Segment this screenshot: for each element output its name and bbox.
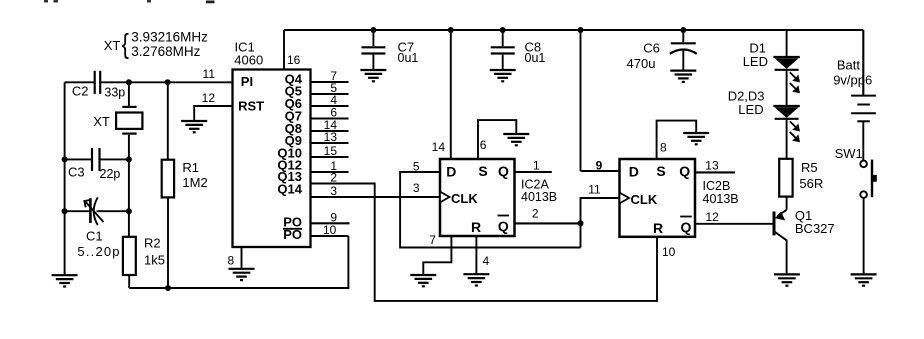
IC2A Q-bar overline [498,215,510,217]
C1 adjust arrow [85,201,104,222]
wire C1 left lead [65,210,90,212]
wire RST to ground [194,106,232,121]
svg-text:4060: 4060 [234,53,263,68]
svg-text:5: 5 [413,160,420,174]
svg-text:4013B: 4013B [521,190,557,204]
svg-text:1: 1 [533,159,540,173]
wire Q1 base wire from IC2B pin 12 [695,223,774,225]
capacitor C8 [491,47,515,53]
ground Q1 collector [774,274,800,285]
wire Q-bar node down to feedback [580,223,582,247]
svg-text:0u1: 0u1 [525,51,546,65]
LED D1 anode bar [773,56,799,58]
LED D1 light arrow 2 [790,83,798,91]
ground IC2A pin7 [410,275,436,286]
switch SW1 actuator [871,160,873,198]
junction Q-bar node [578,220,584,226]
wire battery to SW1 [862,121,864,160]
svg-text:C2: C2 [72,84,89,99]
svg-text:1k5: 1k5 [144,253,165,268]
wire bottom feedback rail to PO-bar [129,236,348,288]
capacitor C7 [361,47,385,53]
wire battery positive stem [862,30,864,96]
svg-text:8: 8 [228,254,235,268]
junction IC2A pin14/rail [448,27,454,33]
wire C1 right lead [97,210,129,212]
LED D1 light arrow 1 [790,72,798,80]
svg-text:13: 13 [705,159,719,173]
cropped text remnant 1 [44,0,48,3]
LED D2,D3 light arrow 2 [790,132,798,140]
op IC1 4060 box [233,70,311,248]
ground IC1 pin8 [229,269,255,280]
wire VDD to IC2B D [580,30,582,171]
transistor Q1 base bar [773,212,776,236]
svg-text:1M2: 1M2 [182,175,207,190]
svg-text:BC327: BC327 [795,221,835,236]
svg-text:33p: 33p [104,86,125,100]
svg-text:D: D [629,164,639,180]
ground IC2B pin8 [683,133,709,144]
svg-text:R1: R1 [182,160,199,175]
wire wire D2 cathode to R5 [786,120,788,159]
svg-text:Q14: Q14 [277,182,302,197]
wire IC1 output stub pin 4 [311,105,349,107]
svg-text:Q: Q [679,163,690,179]
wire SW1 to ground [863,198,865,275]
wire IC2B Q pin13 stub [695,171,735,173]
wire IC1 pin8 to ground [241,247,243,269]
svg-text:R2: R2 [144,236,161,251]
crystal XT top plate [122,106,136,108]
junction C1 left node [62,208,68,214]
svg-text:R: R [471,219,481,235]
junction IC2B D/rail [578,27,584,33]
wire IC1 PO pin9 stub [311,222,350,224]
wire IC2A D feedback [400,172,580,248]
ground battery [851,274,877,285]
svg-text:22p: 22p [100,167,121,181]
wire wire R5 to Q1 emitter [786,197,788,210]
capacitor C6 (electrolytic) [670,43,697,54]
wire IC1 PO-bar pin10 wire [311,235,349,237]
resistor R5 [779,159,792,197]
junction C6/rail [680,27,686,33]
cropped text remnant 4 [206,1,215,4]
battery Batt cells [851,96,876,122]
wire IC2A pin14 supply lead [450,30,452,159]
svg-text:Q: Q [498,163,509,179]
switch SW1 contacts [860,161,867,198]
svg-text:56R: 56R [799,176,823,191]
wire wire D1 cathode to D2 anode [786,71,788,106]
cropped text remnant 2 [54,0,59,3]
junction XT top node [126,79,132,85]
junction C3 left node [62,156,68,162]
svg-text:LED: LED [743,54,768,69]
ground C8 [490,70,516,81]
svg-text:S: S [656,163,665,179]
wire IC1 pin16 supply [283,30,285,70]
IC2B Q-bar overline [680,216,692,218]
junction C3 right node [126,156,132,162]
transistor Q1 collector [775,232,787,274]
svg-text:4: 4 [483,254,490,268]
transistor Q1 emitter with arrow [778,210,787,216]
wire C7 top lead [372,30,374,46]
svg-text:Q: Q [498,218,509,234]
svg-text:12: 12 [706,210,720,224]
svg-text:XT: XT [93,114,110,129]
wire XT node to IC1 PI [101,81,233,83]
svg-text:12: 12 [202,91,216,105]
LED D1 triangle [775,58,799,69]
svg-text:SW1: SW1 [835,146,863,161]
crystal XT bottom plate [122,133,136,135]
wire IC2A pin7 to ground [423,236,451,275]
wire XT top lead [128,82,130,106]
svg-text:2: 2 [330,171,337,185]
wire Q13 pin2 to IC2B reset [311,184,658,301]
capacitor C2 [95,71,101,94]
wire IC2A Q pin1 stub [515,171,552,173]
ground RST [181,121,207,132]
svg-text:2: 2 [532,207,539,221]
svg-text:470u: 470u [627,56,656,71]
LED D2,D3 light arrow 1 [790,121,798,129]
LED D2,D3 anode bar [773,105,799,107]
wire C3 left lead [65,158,91,160]
IC1 PO-bar overline [283,228,302,230]
svg-text:R: R [653,220,663,236]
op IC2A 4013B box [440,159,515,236]
svg-text:Q: Q [681,219,692,235]
junction C1 right node [126,208,132,214]
wire IC2A set pin6 to ground [478,120,516,159]
svg-text:C1: C1 [86,229,103,244]
ground left rail [52,275,78,286]
svg-text:RST: RST [238,99,264,114]
svg-text:CLK: CLK [451,191,478,206]
wire C8 bottom lead [502,55,504,70]
svg-text:XT: XT [104,38,121,53]
resistor R2 [123,237,136,275]
ground IC2A pin4 [463,274,489,285]
wire D1 anode lead [786,30,788,57]
svg-text:3: 3 [413,181,420,195]
svg-text:4013B: 4013B [703,192,739,206]
LED D2,D3 cathode bar [775,118,799,120]
svg-text:S: S [478,163,487,179]
crystal XT body [116,113,142,129]
svg-text:10: 10 [662,245,676,259]
wire IC1 output stub pin 13 [311,142,349,144]
capacitor C1 (variable) [89,198,92,223]
svg-text:9v/pp6: 9v/pp6 [833,73,872,88]
wire XT bottom to R2 [128,135,130,237]
wire C2 left lead [65,81,94,83]
wire Q-bar node to IC2B clock [581,198,620,223]
ground C6 [670,71,696,82]
wire IC2B set pin8 to ground [657,121,697,159]
svg-text:8: 8 [660,141,667,155]
wire IC1 output stub pin 6 [311,117,349,119]
wire IC1 output stub pin 15 [311,156,349,158]
IC2B clock triangle [620,193,630,204]
svg-text:CLK: CLK [631,192,658,207]
svg-text:7: 7 [429,233,436,247]
wire VDD top rail [284,29,863,31]
wire IC1 output stub pin 7 [311,81,349,83]
LED D1 cathode bar [775,69,799,71]
wire IC2A pin4 to ground [475,236,477,274]
wire C6 top lead [682,30,684,42]
wire IC1 output stub pin 1 [311,171,349,173]
junction R1 top node [165,79,171,85]
op IC2B 4013B box [620,159,696,237]
svg-text:16: 16 [287,53,301,67]
wire IC2A Q-bar pin2 wire [515,222,581,224]
svg-text:11: 11 [203,67,216,81]
wire C7 bottom lead [372,55,374,70]
svg-text:3.2768MHz: 3.2768MHz [131,44,200,59]
ground IC2A pin6 [503,134,529,145]
svg-text:10: 10 [323,223,337,237]
junction C8/rail [500,27,506,33]
svg-text:Batt: Batt [837,58,861,73]
wire IC1 output stub pin 5 [311,93,349,95]
junction R1 bottom node [165,285,171,291]
LED D2,D3 triangle [775,107,799,118]
wire C6 bottom lead [682,50,684,71]
svg-text:0u1: 0u1 [398,51,419,65]
wire IC2B D pin9 wire [581,170,620,172]
svg-text:6: 6 [480,138,487,152]
IC2A clock triangle [440,192,450,203]
svg-text:LED: LED [738,102,763,117]
junction C7/rail [370,27,376,33]
wire R1 top lead [167,82,169,159]
svg-text:3.93216MHz: 3.93216MHz [131,30,208,45]
svg-text:C6: C6 [643,41,660,56]
svg-text:3: 3 [330,184,337,198]
wire C8 top lead [502,30,504,46]
svg-text:14: 14 [432,140,446,154]
wire R2 bottom lead [128,275,130,288]
resistor R1 [162,160,174,198]
wire R1 bottom lead [167,197,169,288]
svg-text:5..20p: 5..20p [77,244,120,259]
cropped text remnant 3 [147,0,151,3]
wire IC1 output stub pin 14 [311,130,349,132]
svg-text:C3: C3 [68,165,85,180]
wire left rail C2-C3-C1 [64,82,66,275]
svg-text:15: 15 [324,144,338,158]
svg-text:IC2B: IC2B [703,179,731,193]
svg-text:PI: PI [241,74,253,89]
svg-text:13: 13 [324,130,338,144]
wire C3 right lead [100,158,128,160]
svg-text:11: 11 [588,183,601,197]
ground C7 [360,70,386,81]
svg-text:D: D [446,164,456,180]
wire Q14 pin3 to IC2A clock [311,196,441,198]
capacitor C3 [92,148,100,171]
svg-text:9: 9 [596,159,603,173]
svg-text:R5: R5 [801,160,818,175]
svg-text:{: { [122,28,129,59]
